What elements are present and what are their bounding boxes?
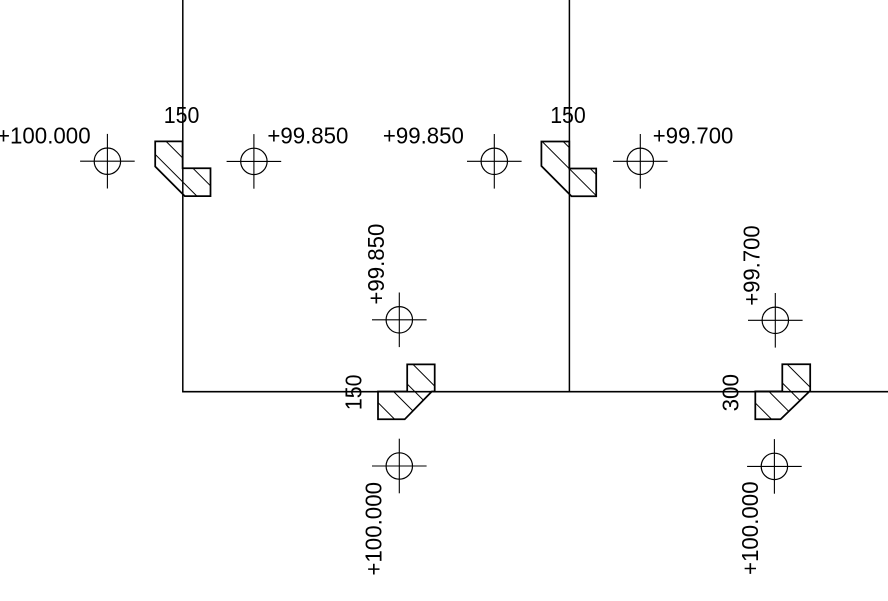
step symbol S1 hatch: [150, 125, 215, 214]
svg-text:+100.000: +100.000: [737, 481, 763, 575]
level marker M8: [747, 439, 802, 494]
step symbol S2 outline: [541, 142, 596, 197]
svg-text:150: 150: [341, 375, 367, 411]
level marker M6: [372, 439, 427, 494]
level marker M1: [80, 134, 135, 189]
svg-text:+100.000: +100.000: [0, 123, 91, 149]
svg-text:+99.700: +99.700: [653, 123, 734, 149]
wire horizontal line: [182, 391, 888, 393]
step symbol S3 outline: [378, 364, 435, 419]
step symbol S4 hatch: [750, 327, 815, 463]
svg-text:+99.850: +99.850: [363, 224, 389, 305]
level marker M5: [372, 293, 427, 348]
step symbol S2 hatch: [536, 114, 601, 200]
wire grid line 2 vertical: [568, 0, 570, 392]
step symbol S4 outline: [755, 364, 810, 419]
step symbol S1 outline: [155, 141, 210, 196]
svg-text:+99.700: +99.700: [738, 225, 764, 306]
level marker M2: [227, 134, 282, 189]
svg-text:+100.000: +100.000: [361, 482, 387, 576]
step symbol S3 hatch: [373, 324, 440, 464]
level marker M4: [613, 134, 668, 189]
svg-text:150: 150: [164, 102, 200, 128]
svg-text:300: 300: [717, 374, 743, 411]
level marker M7: [748, 293, 803, 348]
svg-text:+99.850: +99.850: [267, 123, 348, 149]
level marker M3: [467, 134, 522, 189]
wire grid line 1 vertical: [182, 0, 184, 392]
svg-text:+99.850: +99.850: [383, 123, 464, 149]
svg-text:150: 150: [550, 102, 586, 128]
